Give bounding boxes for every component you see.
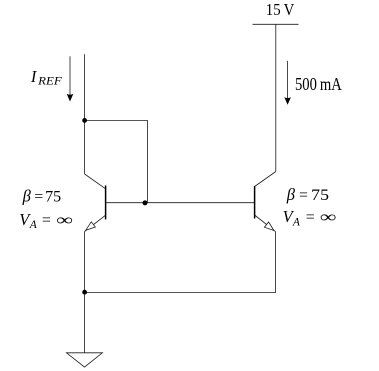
svg-text:=: = bbox=[42, 212, 51, 229]
svg-text:A: A bbox=[29, 219, 38, 231]
label: Q1 V_A = infinity bbox=[19, 210, 73, 231]
current arrow 500 mA (head) bbox=[284, 97, 291, 105]
label: Q1 beta = 75 bbox=[22, 187, 62, 206]
transistor Q1 base bar bbox=[105, 186, 107, 220]
svg-text:∞: ∞ bbox=[56, 212, 73, 229]
transistor Q2 collector lead bbox=[255, 172, 276, 187]
ground symbol bbox=[67, 353, 103, 367]
transistor Q2 base bar bbox=[254, 186, 256, 219]
label: Q2 V_A = infinity bbox=[283, 207, 337, 228]
svg-text:REF: REF bbox=[37, 75, 63, 87]
transistor Q1 emitter lead bbox=[85, 215, 106, 231]
svg-text:500 mA: 500 mA bbox=[295, 74, 342, 94]
wire: Q2 emitter down and bottom bus to node C bbox=[85, 232, 276, 293]
wire: base bus Q1 to Q2 bbox=[106, 202, 255, 204]
node C: emitter/ground junction (junction dot) bbox=[82, 290, 87, 295]
svg-text:=: = bbox=[306, 209, 315, 226]
svg-text:β: β bbox=[22, 187, 32, 206]
svg-text:75: 75 bbox=[45, 189, 61, 206]
node B: base junction (junction dot) bbox=[143, 200, 148, 205]
label: I_REF bbox=[30, 67, 63, 87]
current arrow I_REF (shaft) bbox=[69, 56, 71, 96]
svg-text:A: A bbox=[292, 216, 301, 228]
wire: Q1 emitter down to ground node bbox=[84, 232, 86, 293]
svg-text:I: I bbox=[30, 67, 38, 86]
svg-text:75: 75 bbox=[311, 187, 329, 204]
svg-text:15 V: 15 V bbox=[266, 0, 295, 19]
node A: collector-base tie (junction dot) bbox=[82, 118, 87, 123]
transistor Q1 collector lead bbox=[85, 174, 106, 189]
power rail 15 V bbox=[253, 23, 299, 25]
svg-text:=: = bbox=[299, 187, 308, 204]
label: Q2 beta = 75 bbox=[286, 185, 329, 204]
transistor Q1 emitter arrow (open) bbox=[86, 222, 96, 230]
wire: node A to base tie (top loop) bbox=[85, 120, 148, 202]
svg-text:∞: ∞ bbox=[320, 209, 337, 226]
current arrow I_REF (head) bbox=[67, 94, 74, 102]
transistor Q2 emitter arrow (open) bbox=[264, 222, 274, 231]
wire: rail to Q2 collector bbox=[275, 24, 277, 171]
transistor Q2 emitter lead bbox=[255, 215, 276, 232]
wire: I_REF feed to Q1 collector bbox=[84, 54, 86, 174]
wire: node C to ground bbox=[84, 292, 86, 352]
svg-text:=: = bbox=[34, 189, 43, 206]
svg-text:β: β bbox=[286, 185, 296, 204]
current arrow 500 mA (shaft) bbox=[287, 61, 289, 99]
